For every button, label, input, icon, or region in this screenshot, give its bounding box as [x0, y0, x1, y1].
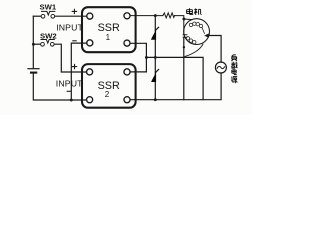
- wire resistor to motor input: [175, 16, 184, 35]
- switch SW1 wire from bus: [33, 15, 41, 17]
- node wire B left: [145, 56, 148, 59]
- switch SW2 lever: [41, 40, 54, 44]
- svg-text:INPUT: INPUT: [56, 78, 83, 88]
- battery B1 short thick plate: [31, 72, 36, 74]
- wire B mid horizontal with right drop: [146, 57, 203, 99]
- AC source G1 circle: [215, 62, 226, 73]
- wire SW2 to SSR2 input+: [55, 44, 87, 72]
- label load supply 负载电源 vertical: [231, 55, 237, 83]
- switch SW2 wire from bus: [33, 43, 40, 45]
- SSR2 terminal pins: [87, 69, 93, 75]
- thyristor V2 triangle: [151, 72, 156, 82]
- node motor winding lead: [183, 46, 185, 48]
- AC source sine symbol: [217, 66, 225, 68]
- wire SSR1 output- to SSR2 output+: [130, 43, 146, 72]
- svg-text:1: 1: [106, 33, 111, 42]
- thyristor V1 gate tick: [155, 27, 158, 30]
- motor M1 circle: [184, 19, 210, 45]
- node thyristor V1 top: [154, 14, 157, 17]
- switch SW1 lever: [42, 11, 55, 15]
- wire SSR1 output+ to resistor: [130, 15, 163, 17]
- motor winding upper loops: [189, 23, 192, 26]
- wire motor right to AC source top: [209, 36, 221, 63]
- wire battery bottom to rail: [33, 73, 86, 100]
- switch SW2 contact circles: [41, 42, 45, 46]
- svg-text:SW1: SW1: [40, 3, 57, 12]
- thyristor V1 vertical line: [154, 16, 156, 58]
- motor input stub: [184, 18, 192, 21]
- wire motor bottom branch down to rail: [183, 37, 185, 99]
- SSR1 terminal pins: [87, 13, 93, 19]
- node rail left: [70, 99, 73, 102]
- label + SSR1 input: [72, 9, 77, 14]
- char 负: [231, 55, 237, 61]
- label - SSR1 input: [72, 40, 76, 42]
- wire left bus vertical: [32, 16, 34, 68]
- wire SSR1 input- down to rail: [71, 43, 86, 100]
- wire SW1 to SSR1 input+: [55, 15, 87, 17]
- svg-text:2: 2: [105, 90, 110, 99]
- motor winding lower loops: [186, 37, 189, 40]
- label - SSR2 input: [67, 90, 71, 92]
- label motor 电机: [187, 8, 202, 15]
- svg-text:SW2: SW2: [40, 32, 57, 41]
- switch SW1 contact circles: [41, 14, 45, 18]
- node motor top input: [182, 18, 185, 21]
- node thyristor V2 bottom: [154, 98, 157, 101]
- char 电: [232, 69, 237, 75]
- node SW2 tap: [32, 43, 35, 46]
- motor winding upper lead to arrow: [202, 27, 205, 34]
- label + SSR2 input: [72, 64, 77, 69]
- char 源: [231, 77, 237, 84]
- thyristor V2 gate tick: [155, 70, 158, 73]
- wire SSR2 output- rail to AC source: [130, 73, 221, 100]
- thyristor V2 vertical line: [154, 57, 156, 99]
- battery B1 long plate: [28, 68, 39, 70]
- node thyristor V1 bottom: [154, 56, 157, 59]
- char 载: [231, 62, 237, 68]
- SSR1 box: [82, 7, 136, 52]
- resistor R1 zigzag: [163, 13, 175, 18]
- motor bottom lead to wire B: [184, 44, 203, 57]
- motor capacitor C1 plates: [183, 35, 188, 37]
- motor lead arrow: [204, 33, 209, 37]
- SSR2 box: [82, 64, 136, 108]
- svg-text:INPUT: INPUT: [56, 22, 83, 32]
- thyristor V1 triangle: [151, 30, 156, 40]
